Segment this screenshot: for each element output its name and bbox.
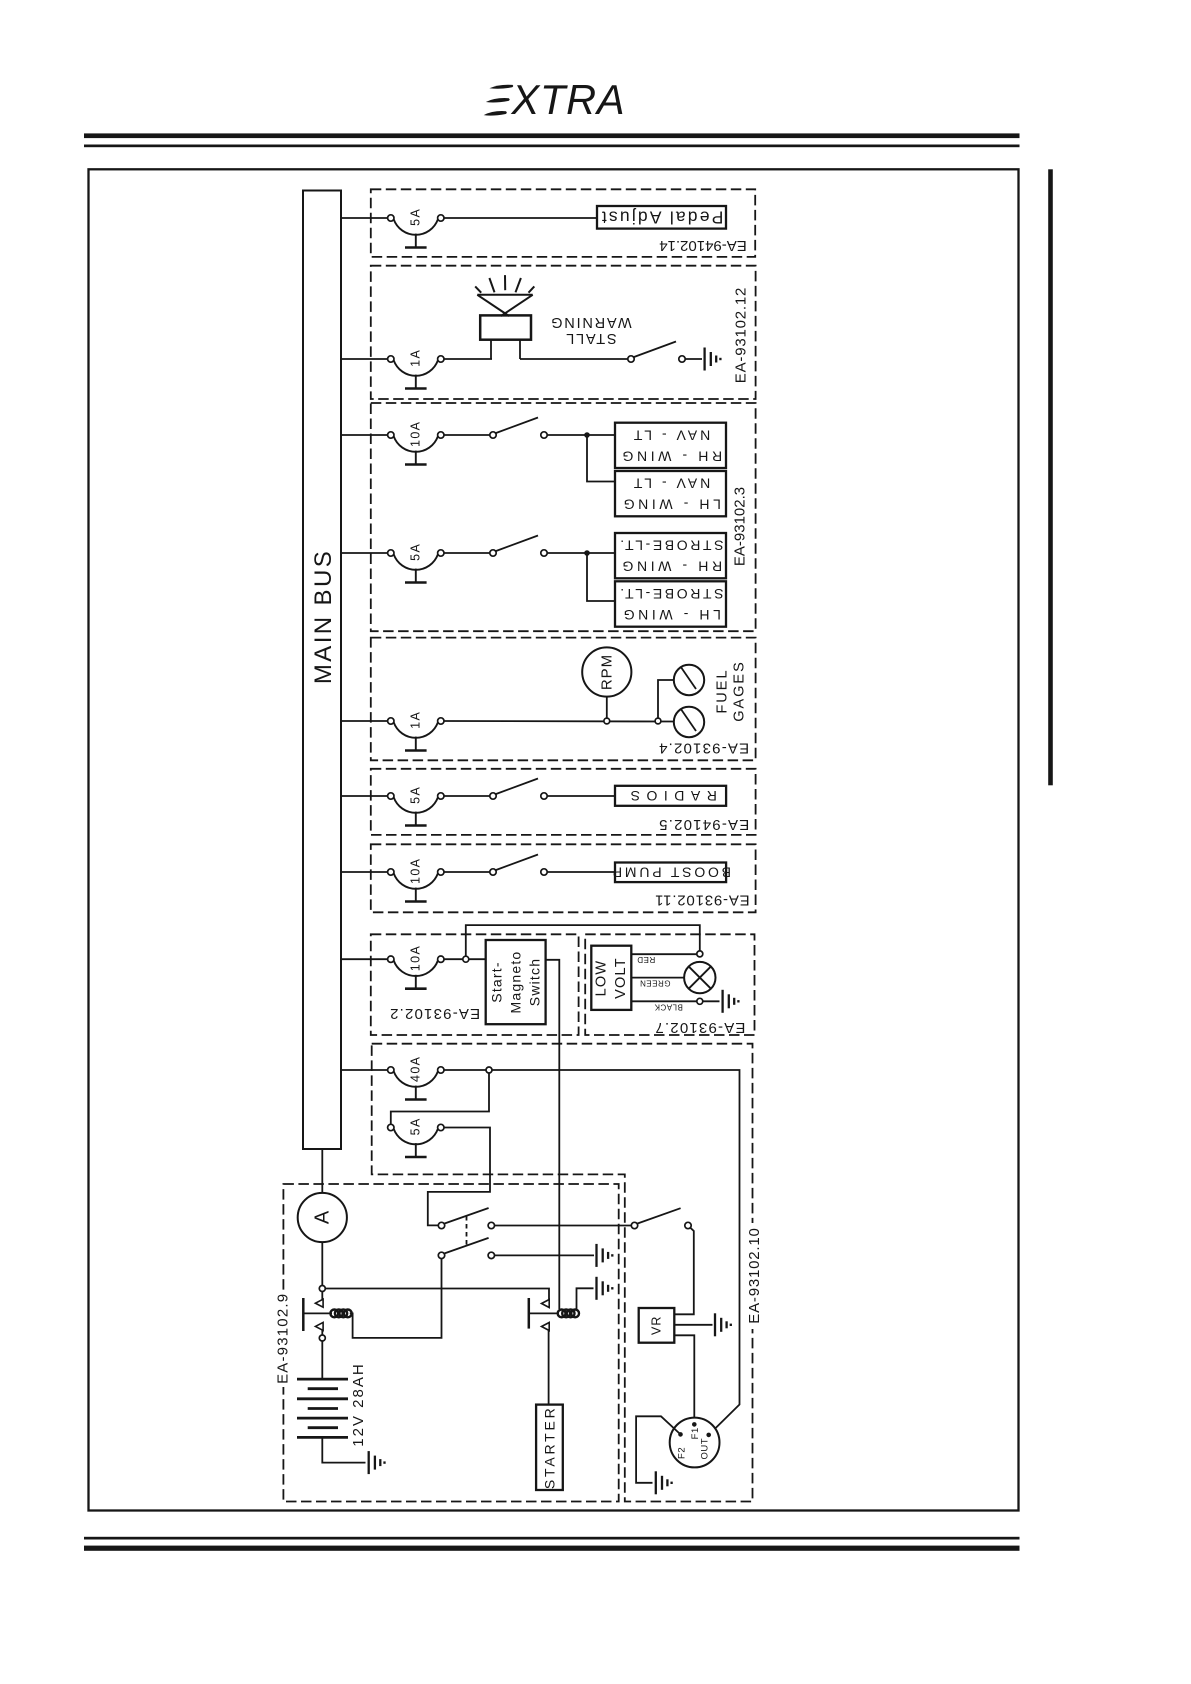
wire junction to low-volt lamp: [466, 925, 700, 956]
svg-text:LOW: LOW: [594, 960, 610, 997]
stall warning horn: [475, 275, 534, 359]
master switch lower blade: [444, 1238, 488, 1254]
branch wire to LH nav: [587, 435, 615, 482]
wire switch to radios: [547, 795, 615, 797]
alternator: [670, 1418, 720, 1468]
wire switch to ground: [685, 358, 702, 360]
VR voltage regulator box: [639, 1308, 675, 1343]
svg-text:5A: 5A: [408, 1117, 422, 1135]
svg-text:5A: 5A: [408, 786, 422, 804]
STARTER box: [536, 1405, 563, 1490]
dashed box EA-94102.14: [371, 189, 755, 257]
wire switch box to starter solenoid: [546, 960, 560, 1309]
dashed box EA-93102.12: [371, 266, 756, 399]
svg-text:OUT: OUT: [699, 1438, 710, 1460]
dashed box EA-93102.2: [371, 934, 579, 1035]
dashed box EA-94102.5: [371, 769, 756, 835]
terminal F2: [678, 1432, 683, 1437]
wire solenoid to starter: [548, 1331, 550, 1406]
svg-text:Start-: Start-: [489, 961, 505, 1002]
svg-text:EA-93102.10: EA-93102.10: [746, 1227, 763, 1323]
lower fuel gauge: [674, 707, 704, 737]
svg-text:RADIOS: RADIOS: [624, 788, 717, 804]
LOW VOLT box: [591, 946, 631, 1010]
svg-text:EA-93102.4: EA-93102.4: [658, 740, 749, 757]
battery relay coil: [330, 1310, 338, 1318]
ammeter: [298, 1193, 347, 1242]
ground (battery): [368, 1451, 370, 1474]
wire junction to alternator OUT: [492, 1070, 740, 1435]
master switch upper pole pivot: [438, 1222, 444, 1228]
ground (alternator F2): [655, 1471, 657, 1494]
fuse 5A (strobe lights): [394, 554, 438, 570]
wire lower pivot to battery relay coil: [350, 1259, 442, 1338]
boost pump switch: [496, 855, 538, 871]
wire strobe switch to lamps: [547, 552, 615, 554]
junction node strobe: [584, 550, 590, 556]
master switch upper blade: [444, 1208, 488, 1224]
wire bus to ammeter: [321, 1149, 323, 1193]
master switch upper fixed contact: [488, 1222, 494, 1228]
dashed box EA-93102.10 (L-shape): [372, 1044, 753, 1502]
RED wire: [631, 953, 697, 955]
wire ammeter to relay terminal: [321, 1242, 323, 1285]
svg-text:BOOST PUMP: BOOST PUMP: [610, 864, 731, 880]
svg-text:EA-93102.11: EA-93102.11: [654, 892, 749, 909]
wire battery to ground: [322, 1437, 365, 1462]
svg-text:EA-93102.3: EA-93102.3: [732, 487, 749, 566]
svg-text:12V 28AH: 12V 28AH: [350, 1362, 367, 1446]
fuse 40A (generator): [394, 1071, 438, 1087]
RH wing nav light box: [615, 423, 726, 468]
junction node 40A out: [486, 1067, 492, 1073]
svg-text:EA-93102.2: EA-93102.2: [389, 1005, 480, 1022]
ground (VR): [714, 1313, 716, 1336]
relay top terminal: [319, 1286, 325, 1292]
wire bus to fuse F7: [341, 871, 388, 873]
Start-Magneto Switch box: [486, 940, 546, 1024]
battery 12V 28AH: [297, 1379, 348, 1437]
wire bus to fuse F9: [341, 1069, 388, 1071]
RH wing strobe light box: [615, 533, 726, 578]
wire switch to pump: [547, 871, 615, 873]
generator switch pivot: [631, 1222, 637, 1228]
fuse 5A (master feed): [394, 1129, 438, 1145]
svg-text:A: A: [311, 1210, 333, 1224]
svg-text:Pedal Adjust: Pedal Adjust: [600, 207, 724, 227]
svg-text:GAGES: GAGES: [732, 660, 748, 722]
dashed box EA-93102.9: [283, 1184, 618, 1502]
junction node rpm: [604, 718, 610, 724]
wire bus to fuse F1: [341, 217, 388, 219]
wire fuse to horn: [444, 358, 492, 360]
svg-text:EA-93102.9: EA-93102.9: [274, 1293, 291, 1384]
LH wing strobe light box: [615, 581, 726, 626]
svg-text:NAV - LT: NAV - LT: [631, 428, 711, 444]
revision change bar: [1048, 169, 1053, 785]
svg-text:EA-93102.7: EA-93102.7: [654, 1019, 745, 1036]
junction node nav: [584, 432, 590, 438]
lamp top terminal: [697, 951, 703, 957]
svg-text:STALL: STALL: [564, 330, 616, 346]
wire fuse to strobe switch: [444, 552, 490, 554]
svg-text:VR: VR: [650, 1316, 664, 1335]
wire fuse to nav switch: [444, 434, 490, 436]
svg-text:5A: 5A: [408, 543, 422, 561]
svg-text:1A: 1A: [408, 349, 422, 367]
svg-text:RH - WING: RH - WING: [619, 449, 722, 465]
wire fuse to gauges: [444, 720, 674, 723]
LH wing nav light box: [615, 471, 726, 516]
dashed box EA-93102.7: [585, 934, 754, 1035]
fuse 10A (nav lights): [394, 436, 438, 452]
svg-text:VOLT: VOLT: [613, 957, 629, 999]
svg-text:RED: RED: [637, 955, 655, 964]
ground (solenoid coil): [595, 1277, 597, 1300]
main border frame: [89, 169, 1019, 1510]
wire F2 to ground: [636, 1416, 680, 1483]
svg-text:F2: F2: [677, 1447, 688, 1459]
svg-text:MAIN BUS: MAIN BUS: [310, 549, 337, 684]
wire junction to switch box: [469, 958, 486, 960]
fuse 10A (boost pump): [394, 873, 438, 889]
wire fuse 5A to master switch: [428, 1128, 490, 1226]
wire bus to fuse F3: [341, 434, 388, 436]
svg-text:EA-94102.14: EA-94102.14: [659, 237, 747, 254]
wire bus to fuse F2: [341, 358, 388, 360]
low volt warning lamp: [684, 962, 715, 993]
wire fuse to pump switch: [444, 871, 490, 873]
terminal F1: [692, 1422, 697, 1427]
wire VR to alternator F1: [674, 1335, 694, 1421]
wire fuse to junction: [444, 958, 463, 960]
svg-text:Magneto: Magneto: [508, 951, 524, 1014]
svg-text:NAV - LT: NAV - LT: [631, 476, 711, 492]
Pedal Adjust box: [597, 206, 726, 229]
starter solenoid coil: [558, 1310, 566, 1318]
svg-text:EA-94102.5: EA-94102.5: [658, 816, 749, 833]
RADIOS box: [615, 786, 726, 806]
wire nav switch to lamps: [547, 434, 615, 436]
label EA-93102.10: [747, 1223, 763, 1329]
svg-text:40A: 40A: [408, 1056, 422, 1082]
wire junction down to fuse 5A: [391, 1073, 489, 1124]
svg-text:10A: 10A: [408, 945, 422, 971]
top double rule: [84, 133, 1020, 138]
wire fuse 40A to junction: [444, 1069, 486, 1071]
branch wire upper fuel gauge: [658, 680, 674, 718]
wire gen switch to VR: [674, 1228, 694, 1315]
branch wire to LH strobe: [587, 553, 615, 601]
svg-text:XTRA: XTRA: [511, 76, 626, 123]
wire fuse to radio switch: [444, 795, 490, 797]
ground (master switch): [595, 1244, 597, 1267]
BOOST PUMP box: [615, 863, 726, 883]
wire relay terminal to starter solenoid: [325, 1289, 549, 1300]
svg-text:RPM: RPM: [598, 654, 615, 690]
BLACK wire: [631, 1000, 697, 1002]
wire bus to fuse F4: [341, 552, 388, 554]
svg-text:STROBE-LT.: STROBE-LT.: [618, 538, 724, 554]
fuse 5A (radios): [394, 797, 438, 813]
junction node start feed: [463, 956, 469, 962]
junction node fuel branch: [655, 718, 661, 724]
wire solenoid coil to ground: [577, 1288, 594, 1309]
master switch mechanical link: [466, 1216, 468, 1247]
master switch lower fixed contact: [488, 1252, 494, 1258]
GREEN wire: [631, 977, 684, 979]
bottom double rule: [84, 1537, 1020, 1540]
dashed box EA-93102.3: [371, 403, 756, 631]
wire bus to fuse F8: [341, 958, 388, 960]
svg-text:LH - WING: LH - WING: [620, 497, 721, 513]
generator switch blade: [637, 1208, 680, 1223]
svg-text:RH - WING: RH - WING: [619, 559, 722, 575]
stall warning switch: [634, 342, 676, 358]
wire master switch to gen switch: [495, 1225, 632, 1227]
fuse 10A (start-magneto): [394, 961, 438, 977]
svg-text:1A: 1A: [408, 711, 422, 729]
ground (low volt lamp): [721, 990, 723, 1013]
starter solenoid: [529, 1298, 558, 1331]
wire fuse to Pedal Adjust: [444, 217, 597, 219]
RPM gauge: [582, 647, 631, 718]
svg-text:EA-93102.12: EA-93102.12: [733, 287, 750, 383]
terminal OUT: [706, 1433, 711, 1438]
svg-text:GREEN: GREEN: [640, 979, 671, 988]
label EA-93102.9: [276, 1290, 291, 1387]
MAIN BUS bar: [303, 191, 341, 1150]
svg-text:10A: 10A: [408, 421, 422, 447]
nav light switch: [496, 418, 538, 434]
lamp bottom terminal: [697, 998, 703, 1004]
generator switch fixed contact: [685, 1222, 691, 1228]
wire bus to fuse F5: [341, 720, 388, 722]
svg-text:F1: F1: [690, 1427, 701, 1439]
relay bottom terminal: [319, 1335, 325, 1341]
svg-text:STROBE-LT.: STROBE-LT.: [618, 586, 724, 602]
upper fuel gauge: [674, 665, 704, 695]
wire relay to battery: [321, 1341, 323, 1379]
dashed box EA-93102.11: [371, 844, 756, 912]
wire lamp to ground: [703, 1000, 720, 1002]
svg-text:WARNING: WARNING: [549, 314, 631, 330]
svg-text:5A: 5A: [408, 208, 422, 226]
svg-text:10A: 10A: [408, 858, 422, 884]
svg-text:BLACK: BLACK: [654, 1002, 683, 1011]
battery relay: [303, 1292, 332, 1336]
fuse 1A (gauges): [394, 722, 438, 738]
svg-text:STARTER: STARTER: [542, 1405, 558, 1489]
strobe light switch: [496, 536, 538, 552]
fuse 1A (stall warning): [394, 360, 438, 376]
radio master switch: [496, 779, 538, 795]
wire horn to switch: [520, 358, 628, 360]
dashed box EA-93102.4: [371, 638, 756, 761]
master switch lower pole pivot: [438, 1252, 444, 1258]
svg-text:Switch: Switch: [527, 958, 543, 1006]
svg-text:LH - WING: LH - WING: [620, 607, 721, 623]
wire lower pole to ground: [495, 1254, 595, 1256]
ground (stall warning): [703, 348, 705, 371]
svg-text:FUEL: FUEL: [714, 668, 730, 713]
fuse 5A (pedal adjust): [394, 219, 438, 235]
EXTRA logo: [484, 76, 626, 123]
wire bus to fuse F6: [341, 795, 388, 797]
wire VR to ground: [674, 1324, 712, 1326]
